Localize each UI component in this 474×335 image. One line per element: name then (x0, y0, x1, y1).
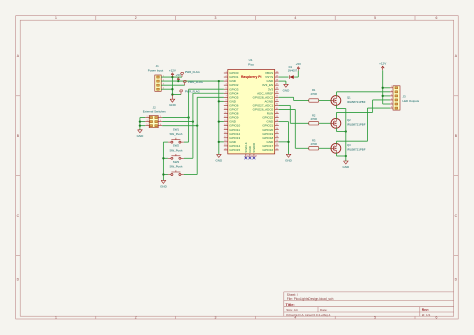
connector J1 Power Input (148, 64, 164, 91)
transistor Q2 IRLB8721PBF (331, 118, 366, 128)
wire R1 to Q1 gate (319, 100, 332, 102)
svg-text:4: 4 (294, 16, 296, 20)
junction SW3 net (196, 125, 198, 127)
wire SW2 left (163, 157, 168, 159)
wire Q2 drain to J3 (336, 112, 338, 118)
svg-text:SW_Push: SW_Push (169, 165, 182, 169)
svg-text:PWR_FLAG: PWR_FLAG (188, 80, 203, 84)
junction SW1 net (187, 116, 189, 118)
svg-text:1: 1 (55, 316, 57, 320)
svg-text:Date:: Date: (320, 308, 328, 312)
svg-text:IRLB8721PBF: IRLB8721PBF (347, 123, 366, 127)
power flag PWR_FLAG (GND) (180, 90, 200, 95)
svg-text:5: 5 (146, 124, 147, 126)
svg-text:J3: J3 (403, 94, 406, 98)
wire J1 pin2 to Pico GND (long) (161, 80, 224, 82)
junction J1 pin1 (171, 76, 173, 78)
connector J3 LED Outputs (390, 86, 420, 110)
svg-text:PWR_FLAG: PWR_FLAG (185, 70, 200, 74)
svg-text:2: 2 (135, 16, 137, 20)
junction right gnd bus (287, 141, 289, 143)
transistor Q1 IRLB8721PBF (331, 95, 366, 105)
svg-text:R1: R1 (312, 88, 316, 92)
svg-text:Q1: Q1 (347, 95, 351, 99)
svg-text:+5V: +5V (296, 62, 301, 66)
svg-text:3: 3 (215, 16, 217, 20)
wire SW3 right + vertical to Pico (184, 174, 197, 176)
svg-text:5: 5 (374, 16, 376, 20)
svg-text:Size: A4: Size: A4 (286, 308, 298, 312)
svg-text:3: 3 (146, 120, 147, 122)
switch SW1 SW_Push (168, 128, 184, 144)
ground GND (switches) (160, 180, 168, 188)
power +5V (D1) (296, 62, 301, 70)
junction SW2 net (192, 120, 194, 122)
title block (284, 292, 454, 316)
wire Q2 source (336, 128, 338, 132)
no-connect X marks U1 bottom (244, 157, 255, 160)
wire Q1 drain to J3 (336, 92, 338, 96)
wire Q3 source (336, 153, 338, 156)
svg-text:File: PicoLightsDesign.kicad_s: File: PicoLightsDesign.kicad_sch (287, 297, 334, 301)
svg-text:GND: GND (342, 165, 350, 169)
switch SW2 SW_Push (168, 144, 184, 160)
svg-text:2: 2 (160, 116, 161, 118)
svg-text:1: 1 (391, 86, 392, 88)
wire J2 pin4 to SW2 net (162, 121, 193, 123)
ground GND (sources) (342, 161, 350, 169)
svg-text:6: 6 (391, 106, 392, 108)
wire Pico left GND bus (218, 81, 220, 154)
wire Q3 drain to J3 (336, 141, 338, 144)
svg-text:Title:: Title: (286, 302, 295, 307)
svg-text:6: 6 (160, 124, 161, 126)
svg-text:3: 3 (215, 316, 217, 320)
wire SW1 right + vertical to Pico (184, 141, 189, 143)
junction source rail Q2 (345, 130, 347, 132)
svg-text:6: 6 (436, 316, 438, 320)
svg-text:1: 1 (146, 116, 147, 118)
U1 bottom pins SWCLK GND SWDIO (244, 142, 258, 158)
junction gnd bus taps (218, 80, 220, 82)
svg-text:LED Outputs: LED Outputs (403, 99, 420, 103)
svg-text:5: 5 (374, 316, 376, 320)
svg-text:R2: R2 (312, 113, 316, 117)
junction J2 gnd bus (139, 120, 141, 122)
svg-text:5: 5 (391, 102, 392, 104)
switch SW3 SW_Push (168, 160, 184, 176)
power +12V (J1) (169, 68, 176, 77)
svg-text:470R: 470R (310, 142, 316, 146)
junction SW2 gnd (162, 157, 164, 159)
svg-text:Q2: Q2 (347, 118, 351, 122)
wire D1 to +5V (294, 76, 298, 78)
ground GND (Pico right) (285, 154, 293, 162)
svg-text:4: 4 (391, 98, 392, 100)
svg-text:+12V: +12V (379, 62, 386, 66)
wire J2 left pins to GND bus (140, 117, 145, 119)
svg-text:GPIO15: GPIO15 (229, 148, 240, 152)
wire GPIO27 to R2 (279, 104, 291, 106)
junction +12V taps (382, 87, 384, 89)
svg-text:IRLB8721PBF: IRLB8721PBF (347, 100, 366, 104)
svg-text:470R: 470R (310, 117, 316, 121)
ground GND (pin38) (283, 84, 291, 92)
U1 right pins (253, 71, 279, 152)
svg-text:+5V: +5V (176, 73, 181, 77)
svg-text:GND: GND (283, 88, 291, 92)
junction J1 pin4 (171, 88, 173, 90)
wire SW2 right + vertical to Pico (184, 157, 193, 159)
transistor Q3 IRLB8721PBF (331, 143, 366, 153)
svg-text:GND: GND (160, 184, 168, 188)
svg-text:Pico: Pico (248, 62, 254, 66)
ground GND (J1) (169, 95, 177, 108)
resistor R3 470R (309, 138, 319, 150)
svg-text:GND: GND (169, 103, 177, 107)
svg-text:GND: GND (215, 158, 223, 162)
wire SW1 left (163, 141, 168, 143)
svg-text:GND: GND (137, 134, 145, 138)
svg-text:2: 2 (391, 90, 392, 92)
connector J2 External Switches (143, 106, 167, 128)
wire GPIO28 to R1 (279, 96, 294, 98)
svg-text:3: 3 (391, 94, 392, 96)
svg-text:SW_Push: SW_Push (169, 148, 182, 152)
svg-text:R3: R3 (312, 138, 316, 142)
svg-text:GPIO16: GPIO16 (262, 148, 273, 152)
wire source rail (345, 109, 347, 162)
diode D1 1N4007 (288, 65, 298, 79)
wire +12V bus (382, 70, 384, 104)
resistor R2 470R (309, 113, 319, 125)
U1 left pins (224, 71, 241, 152)
resistor R1 470R (309, 88, 319, 102)
junction source rail Q3 (345, 155, 347, 157)
wire branch to PWR_FLAG gnd (172, 94, 181, 96)
power flag PWR_FLAG (+5V) (183, 80, 202, 85)
power flag PWR_FLAG (+12V) (181, 70, 200, 77)
wire J1 pin4 to GND bus (161, 88, 172, 90)
wire switches GND bus (162, 142, 164, 180)
svg-text:Rev:: Rev: (422, 308, 429, 312)
svg-text:4: 4 (160, 120, 161, 122)
svg-text:2: 2 (135, 316, 137, 320)
power +12V (LED rail) (379, 62, 386, 71)
junction +5V (177, 80, 179, 82)
wire Pico right GND bus (279, 121, 289, 123)
svg-text:External Switches: External Switches (143, 109, 167, 113)
wire J2 pin6 to SW3 net (162, 125, 197, 127)
svg-text:KiCad E.D.A. kicad 6.0.2+dfsg: KiCad E.D.A. kicad 6.0.2+dfsg-1 (286, 313, 331, 317)
power +5V (J1) (176, 73, 181, 81)
svg-text:SWDIO: SWDIO (252, 142, 256, 153)
wire R2 to Q2 gate (319, 122, 332, 124)
svg-text:Id: 1/1: Id: 1/1 (422, 313, 431, 317)
wire GPIO26 to R3 (279, 108, 296, 110)
wire R3 to Q3 gate (319, 147, 332, 149)
svg-text:Q3: Q3 (347, 143, 351, 147)
wire VSYS to D1 (279, 76, 289, 78)
wire J1 GND vertical bus (171, 77, 173, 95)
svg-text:SW1: SW1 (173, 128, 180, 132)
svg-text:SW_Push: SW_Push (169, 132, 182, 136)
wire SW3 left (163, 174, 168, 176)
ground GND (Pico left) (215, 154, 223, 162)
svg-text:SW2: SW2 (173, 144, 180, 148)
svg-text:470R: 470R (310, 92, 316, 96)
MCU U1 Raspberry Pi Pico (228, 58, 275, 154)
ground GND (J2) (137, 130, 145, 138)
svg-text:Power Input: Power Input (148, 68, 164, 72)
wire Q1 source (336, 105, 338, 109)
wire Pico GND pin38 to ground (279, 80, 286, 82)
svg-text:Raspberry Pi: Raspberry Pi (241, 75, 261, 79)
svg-text:6: 6 (436, 16, 438, 20)
wire J1 pin3 to PWR_FLAG (161, 84, 185, 86)
wire J1 pin1 to +12V and PWR_FLAG (161, 76, 182, 78)
junction SW3 gnd (162, 173, 164, 175)
svg-text:1N4007: 1N4007 (288, 68, 298, 72)
junction gnd branch (171, 93, 173, 95)
svg-text:SW3: SW3 (173, 160, 180, 164)
wire J2 pin2 to SW1 net (162, 117, 188, 119)
svg-text:GND: GND (285, 158, 293, 162)
svg-text:+12V: +12V (169, 68, 176, 72)
svg-text:1: 1 (55, 16, 57, 20)
svg-text:IRLB8721PBF: IRLB8721PBF (347, 148, 366, 152)
